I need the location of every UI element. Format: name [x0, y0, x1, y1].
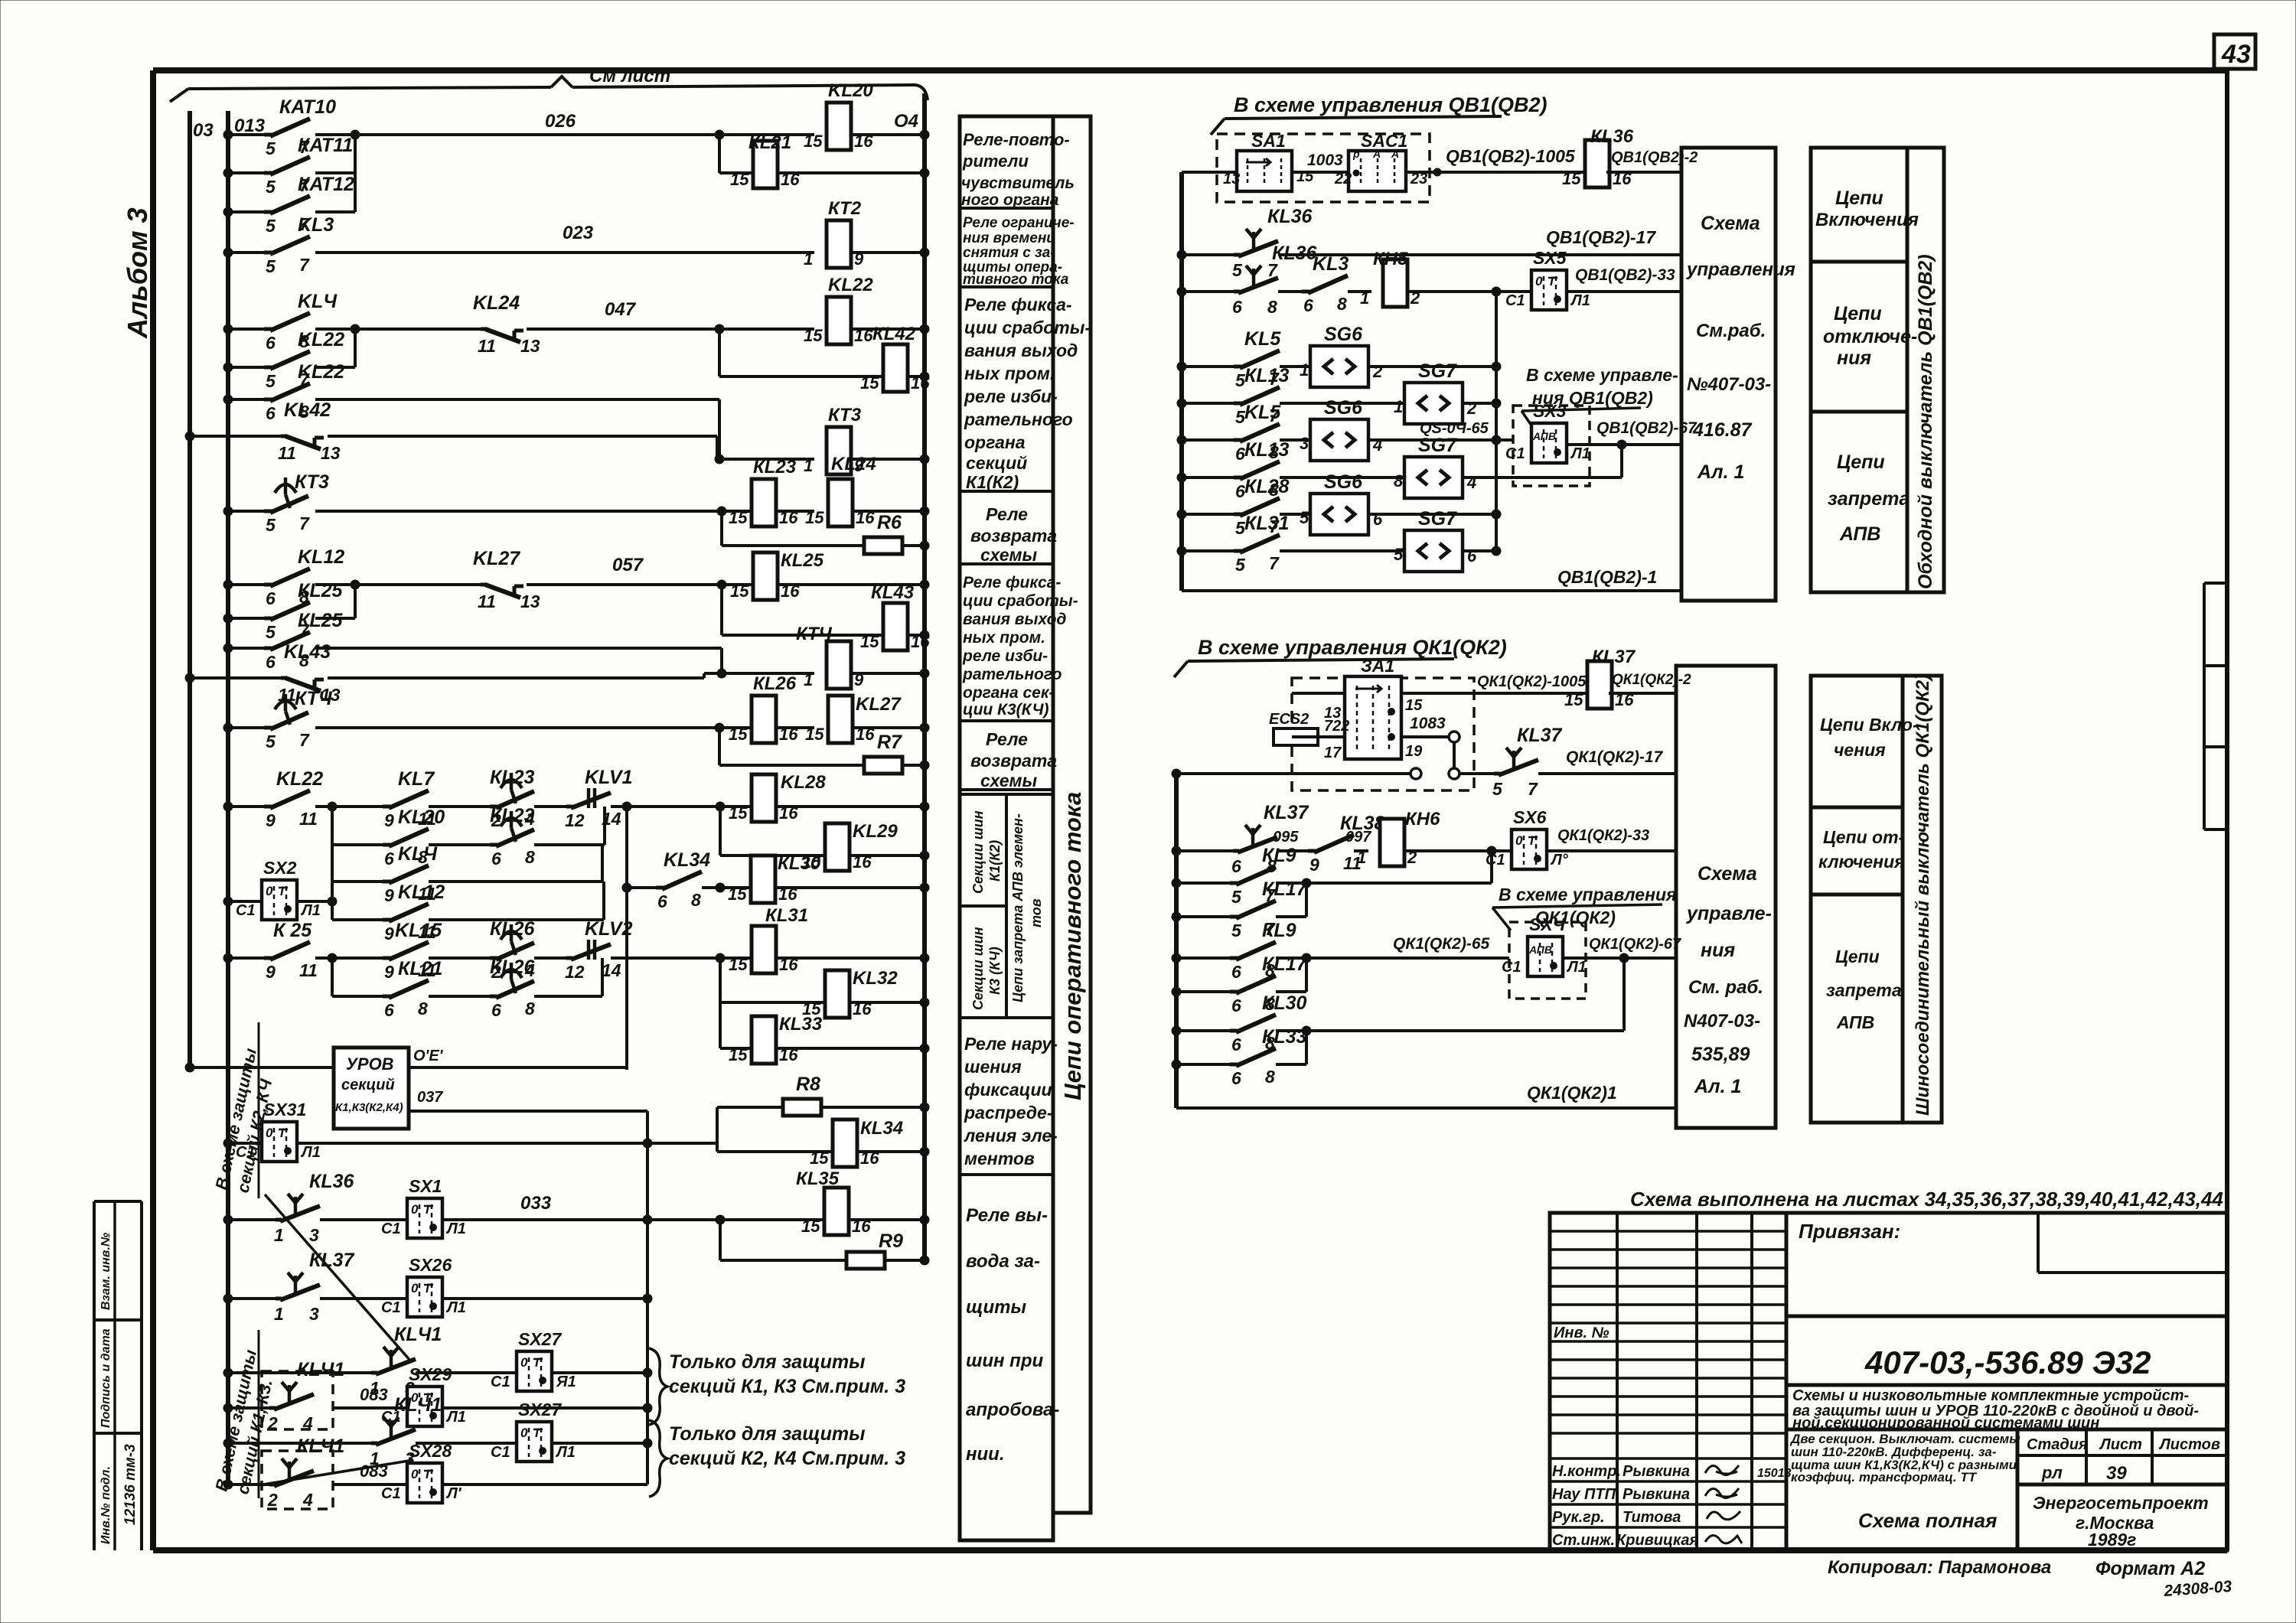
resistor R8 — [783, 1099, 821, 1116]
test block SX6 — [1512, 829, 1547, 869]
frame spare column right edge — [2204, 583, 2227, 829]
svg-text:SAC1: SAC1 — [1361, 131, 1407, 151]
svg-text:3: 3 — [309, 1304, 319, 1324]
svg-text:Ст.инж.: Ст.инж. — [1552, 1532, 1615, 1549]
svg-text:Рывкина: Рывкина — [1623, 1463, 1690, 1480]
junction — [715, 130, 724, 139]
relay coil KT3 — [827, 427, 851, 474]
svg-text:В схеме управления: В схеме управления — [1499, 885, 1677, 904]
svg-text:Реле нару-: Реле нару- — [964, 1034, 1058, 1054]
wire rung 047 — [228, 328, 264, 331]
svg-text:15: 15 — [730, 582, 749, 601]
svg-text:0: 0 — [266, 884, 273, 898]
branch KL12 — [331, 882, 334, 920]
svg-text:Л1: Л1 — [1570, 292, 1590, 309]
wire rung 057 — [228, 583, 264, 586]
relay coil KL35 — [824, 1188, 849, 1235]
svg-text:16: 16 — [911, 632, 930, 651]
svg-text:083: 083 — [360, 1385, 388, 1404]
svg-text:КL25: КL25 — [781, 550, 824, 571]
svg-text:ЗА1: ЗА1 — [1361, 656, 1394, 676]
svg-text:15: 15 — [729, 955, 748, 974]
svg-text:6: 6 — [1231, 1068, 1241, 1088]
svg-text:Ал. 1: Ал. 1 — [1697, 461, 1744, 483]
svg-text:УРОВ: УРОВ — [346, 1054, 394, 1074]
svg-text:КL23: КL23 — [753, 457, 797, 477]
svg-text:15: 15 — [805, 508, 824, 527]
svg-text:ния: ния — [1701, 940, 1735, 961]
svg-text:15: 15 — [728, 885, 747, 904]
svg-text:5: 5 — [1394, 545, 1404, 564]
svg-text:KL22: KL22 — [276, 768, 323, 790]
test block SX29 — [407, 1387, 442, 1426]
svg-text:р: р — [1352, 148, 1360, 160]
svg-text:R9: R9 — [879, 1230, 903, 1252]
svg-text:6: 6 — [1232, 297, 1242, 317]
svg-text:секций: секций — [341, 1077, 395, 1093]
svg-text:КL31: КL31 — [765, 905, 808, 926]
svg-text:SG7: SG7 — [1418, 435, 1457, 456]
cell text relay repeaters — [961, 130, 1075, 209]
wire R8 line — [717, 1106, 783, 1109]
svg-text:0: 0 — [411, 1202, 419, 1217]
svg-text:КL17: КL17 — [1262, 953, 1308, 975]
svg-text:5: 5 — [1231, 887, 1242, 907]
svg-text:1: 1 — [804, 456, 813, 475]
svg-text:6: 6 — [266, 588, 276, 608]
svg-text:KL22: KL22 — [298, 329, 344, 350]
switch SA1 — [1223, 131, 1314, 191]
svg-text:7: 7 — [299, 730, 310, 750]
svg-text:ции сработы-: ции сработы- — [963, 592, 1078, 610]
svg-text:19: 19 — [1405, 743, 1423, 760]
relay coil KL28 — [752, 774, 776, 822]
cell text return relay 2 — [970, 729, 1057, 790]
svg-text:Л°: Л° — [1550, 852, 1569, 869]
wire UROV out 037 — [409, 1110, 647, 1113]
svg-text:16: 16 — [853, 852, 872, 872]
svg-text:Цепи: Цепи — [1835, 187, 1883, 209]
wire rung KL41 — [228, 1371, 371, 1374]
svg-text:КLЧ1: КLЧ1 — [394, 1394, 442, 1416]
svg-text:КТ2: КТ2 — [828, 198, 862, 219]
svg-text:КL25: КL25 — [298, 610, 344, 631]
svg-text:ции сработы-: ции сработы- — [964, 318, 1091, 337]
svg-text:щиты: щиты — [966, 1297, 1026, 1318]
svg-text:реле изби-: реле изби- — [964, 386, 1058, 406]
svg-text:6: 6 — [491, 1000, 501, 1020]
svg-text:Цепи: Цепи — [1837, 451, 1885, 473]
svg-text:Титова: Титова — [1623, 1509, 1681, 1526]
svg-text:Только для защиты: Только для защиты — [669, 1351, 865, 1373]
wire to R6 — [720, 511, 723, 546]
svg-text:Альбом 3: Альбом 3 — [122, 207, 153, 339]
svg-text:12: 12 — [565, 810, 585, 830]
wire rung KL25-2 — [228, 647, 264, 650]
svg-text:KL29: KL29 — [853, 821, 898, 842]
svg-text:5: 5 — [266, 371, 276, 391]
svg-text:16: 16 — [854, 132, 873, 151]
link wire up to -67 — [1620, 445, 1623, 477]
svg-text:Л1: Л1 — [445, 1299, 466, 1316]
svg-text:16: 16 — [853, 999, 872, 1018]
wire KT4 coil line — [722, 672, 814, 675]
cell text bus protection output relay — [966, 1205, 1059, 1465]
rotated label bus-tie breaker QK1 — [1903, 674, 1942, 1123]
cell text time limit relay — [963, 215, 1075, 288]
svg-text:Реле фикса-: Реле фикса- — [964, 295, 1072, 314]
fuse ECS2 — [1269, 711, 1349, 745]
svg-text:0: 0 — [411, 1467, 419, 1481]
svg-text:1: 1 — [804, 249, 813, 269]
svg-text:SХ3: SХ3 — [1533, 401, 1567, 421]
wire KL34 coil line — [717, 1150, 833, 1153]
leader line — [263, 1460, 413, 1484]
step wire — [716, 1107, 719, 1152]
collector wire — [646, 1111, 649, 1484]
svg-text:KL5: KL5 — [1244, 402, 1281, 423]
svg-text:SG7: SG7 — [1418, 508, 1457, 530]
rotated label bypass breaker QB1 — [1907, 148, 1944, 592]
svg-text:шения: шения — [964, 1057, 1022, 1077]
brace for note K2 K4 — [649, 1420, 667, 1497]
svg-text:9: 9 — [266, 962, 276, 982]
svg-text:KL15: KL15 — [395, 920, 442, 941]
svg-text:2: 2 — [1466, 399, 1477, 418]
svg-text:отключе-: отключе- — [1823, 326, 1917, 347]
svg-text:QВ1(QВ2)-2: QВ1(QВ2)-2 — [1611, 149, 1698, 166]
protection scheme note K1 K3 — [211, 1330, 276, 1498]
wire rung QK1-1 — [1176, 1106, 1676, 1110]
link wire — [703, 673, 706, 678]
svg-text:SX27: SX27 — [518, 1400, 562, 1419]
wire rung KAT11 — [228, 171, 264, 174]
svg-text:В схеме управления QВ1(QВ2): В схеме управления QВ1(QВ2) — [1234, 93, 1548, 116]
svg-text:3: 3 — [1300, 434, 1309, 453]
svg-text:Реле фикса-: Реле фикса- — [963, 574, 1061, 592]
svg-text:SG6: SG6 — [1324, 324, 1363, 345]
svg-text:15: 15 — [729, 725, 748, 744]
svg-text:рательного: рательного — [964, 409, 1073, 429]
svg-text:вания выход: вания выход — [963, 611, 1066, 628]
wire to KL42 coil — [718, 329, 721, 376]
wire to R7 — [718, 728, 721, 765]
svg-text:11: 11 — [278, 443, 296, 463]
svg-text:Цепи запрета АПВ элемен-: Цепи запрета АПВ элемен- — [1010, 813, 1026, 1002]
svg-text:КАТ10: КАТ10 — [279, 96, 336, 118]
wire to KL21 branch — [718, 135, 721, 173]
svg-text:QВ1(QВ2)-17: QВ1(QВ2)-17 — [1546, 227, 1656, 247]
svg-text:13: 13 — [520, 592, 540, 611]
svg-text:1: 1 — [804, 670, 813, 689]
svg-text:1003: 1003 — [1307, 152, 1343, 169]
svg-text:КL37: КL37 — [1517, 725, 1563, 746]
relay coil KL37 — [1587, 661, 1612, 709]
svg-text:SX28: SX28 — [409, 1441, 452, 1461]
signature scribbles — [1705, 1465, 1792, 1543]
svg-text:SX26: SX26 — [409, 1255, 452, 1275]
svg-text:См лист: См лист — [589, 66, 670, 86]
svg-text:Формат А2: Формат А2 — [2095, 1558, 2205, 1579]
svg-text:16: 16 — [781, 582, 800, 601]
svg-text:Реле: Реле — [986, 504, 1028, 524]
test block SX27 — [517, 1351, 552, 1391]
svg-text:Включения: Включения — [1815, 210, 1919, 230]
right return bus — [922, 93, 927, 1263]
svg-text:органа сек-: органа сек- — [963, 684, 1054, 702]
svg-text:рители: рители — [962, 152, 1029, 171]
svg-text:8: 8 — [1267, 297, 1277, 317]
test block SX4 — [1528, 937, 1563, 976]
svg-text:Шиносоединительный выключател: Шиносоединительный выключатель QК1(QК2) — [1913, 674, 1933, 1116]
svg-text:5: 5 — [266, 177, 276, 197]
svg-text:16: 16 — [860, 1149, 879, 1168]
svg-text:Л1: Л1 — [1570, 445, 1590, 462]
svg-text:запрета: запрета — [1826, 980, 1902, 1000]
svg-text:Схема: Схема — [1701, 213, 1760, 234]
note in control scheme QB1 — [1521, 365, 1678, 433]
svg-text:Цепи от-: Цепи от- — [1823, 827, 1904, 847]
control scheme box B1 — [1676, 666, 1776, 1128]
svg-text:9: 9 — [854, 249, 864, 269]
junction — [717, 507, 726, 516]
svg-text:6: 6 — [1231, 1035, 1241, 1054]
svg-text:6: 6 — [1373, 510, 1383, 529]
svg-text:ного органа: ного органа — [961, 191, 1059, 209]
svg-text:КL21: КL21 — [748, 132, 791, 153]
svg-text:15: 15 — [1564, 690, 1583, 709]
relay coil KL23 — [752, 479, 776, 526]
svg-text:КL9: КL9 — [1262, 845, 1296, 866]
svg-text:12: 12 — [565, 962, 585, 982]
svg-text:KL12: KL12 — [398, 882, 445, 903]
svg-text:5: 5 — [266, 139, 276, 158]
relay coil KL25 — [753, 552, 778, 600]
relay coil KH6 — [1380, 819, 1404, 866]
svg-text:KL42: KL42 — [284, 399, 331, 421]
svg-text:6: 6 — [266, 333, 276, 353]
svg-text:КL36: КL36 — [1267, 206, 1313, 227]
svg-text:КL9: КL9 — [1262, 920, 1296, 941]
circuit purpose box B2 — [1811, 676, 1919, 1123]
svg-text:Реле вы-: Реле вы- — [966, 1205, 1048, 1226]
svg-text:1: 1 — [274, 1225, 284, 1245]
svg-text:1: 1 — [274, 1304, 284, 1324]
test block SX27 second — [517, 1422, 552, 1462]
svg-text:7: 7 — [1269, 553, 1280, 573]
svg-text:8: 8 — [691, 890, 701, 910]
svg-text:047: 047 — [605, 299, 637, 320]
relay coil KL21 — [753, 141, 778, 188]
svg-text:органа: органа — [964, 432, 1026, 452]
svg-text:шин при: шин при — [966, 1351, 1043, 1371]
spark gap SG7 third — [1404, 530, 1463, 572]
svg-text:1083: 1083 — [1410, 715, 1446, 732]
group feed wire — [332, 805, 383, 808]
svg-text:С1: С1 — [491, 1444, 510, 1461]
resistor R6 — [864, 537, 902, 554]
svg-text:KL43: KL43 — [284, 641, 331, 663]
control scheme box A1 — [1681, 148, 1795, 601]
svg-text:Л1: Л1 — [1566, 959, 1587, 976]
step wire — [720, 648, 723, 673]
svg-text:КL21: КL21 — [398, 958, 442, 979]
wire KL34 contact branch — [625, 807, 628, 1070]
svg-text:16: 16 — [856, 508, 875, 527]
relay coil KL34 — [833, 1119, 857, 1167]
svg-text:Энергосетьпроект: Энергосетьпроект — [2033, 1493, 2209, 1513]
svg-text:7: 7 — [1528, 779, 1538, 799]
svg-text:Схема выполнена на лист: Схема выполнена на листах 34,35,36,37,38… — [1630, 1188, 2223, 1211]
svg-text:Н.контр.: Н.контр. — [1552, 1463, 1621, 1480]
wire rung SG7-2 — [1182, 476, 1234, 479]
svg-text:9: 9 — [1309, 855, 1319, 875]
svg-text:023: 023 — [563, 223, 594, 243]
svg-text:15: 15 — [1405, 697, 1423, 714]
svg-text:KL34: KL34 — [664, 849, 710, 871]
svg-text:SX29: SX29 — [409, 1364, 452, 1384]
svg-text:QК1(QК2)-67: QК1(QК2)-67 — [1589, 936, 1681, 953]
svg-text:С1: С1 — [1486, 852, 1505, 869]
svg-text:КL17: КL17 — [1262, 878, 1308, 900]
svg-text:Л1: Л1 — [445, 1221, 466, 1237]
title block frame — [1550, 1213, 2227, 1550]
wire rung QK1-17 — [1176, 772, 1411, 775]
svg-text:С1: С1 — [236, 902, 256, 919]
test block SX26 — [407, 1277, 442, 1317]
svg-text:Инв.№ подл.: Инв.№ подл. — [99, 1466, 113, 1544]
svg-text:097: 097 — [1345, 829, 1371, 846]
svg-text:ния времени: ния времени — [963, 230, 1055, 246]
svg-text:рательного: рательного — [962, 666, 1062, 683]
test block SX5 — [1531, 270, 1567, 310]
svg-text:15: 15 — [860, 373, 879, 393]
svg-text:1: 1 — [1300, 360, 1309, 380]
svg-text:15: 15 — [804, 132, 823, 151]
step wire down — [718, 399, 721, 459]
svg-text:Реле ограниче-: Реле ограниче- — [963, 215, 1075, 231]
svg-text:16: 16 — [779, 725, 798, 744]
svg-text:Схема полная: Схема полная — [1858, 1509, 1997, 1532]
svg-text:6: 6 — [1231, 856, 1241, 876]
svg-text:Кривицкая: Кривицкая — [1616, 1532, 1698, 1549]
wire rung KL22 group — [228, 805, 264, 808]
spark gap SG6 — [1310, 346, 1368, 387]
wire rung SG7-1 — [1182, 402, 1234, 405]
svg-text:К1(К2): К1(К2) — [966, 472, 1019, 492]
svg-text:С1: С1 — [381, 1299, 401, 1316]
svg-text:QК1(QК2)-2: QК1(QК2)-2 — [1612, 672, 1691, 688]
svg-text:8: 8 — [1265, 1067, 1275, 1087]
wire rung 013-026 — [228, 133, 264, 136]
svg-text:15: 15 — [801, 1217, 820, 1236]
svg-text:6: 6 — [266, 403, 276, 423]
svg-text:КLЧ1: КLЧ1 — [394, 1324, 442, 1345]
wire rung KL37 — [228, 1297, 276, 1300]
svg-text:Рук.гр.: Рук.гр. — [1552, 1509, 1605, 1526]
svg-text:КТ3: КТ3 — [828, 405, 862, 425]
svg-text:КL28: КL28 — [1244, 476, 1290, 497]
wire rung QB1-17 — [1182, 253, 1234, 256]
svg-text:16: 16 — [854, 326, 873, 345]
svg-text:0: 0 — [520, 1355, 528, 1370]
relay coil KT4 — [827, 641, 851, 689]
description column frame — [960, 116, 1091, 1540]
svg-text:KL20: KL20 — [398, 807, 445, 828]
bus 03 left feeder — [188, 111, 192, 1070]
svg-text:Секции шин: Секции шин — [970, 927, 986, 1010]
svg-text:Листов: Листов — [2158, 1436, 2220, 1453]
rotated cell text sections K1 K2 — [970, 810, 1003, 894]
wire R9 line — [719, 1220, 722, 1260]
svg-text:QК1(QК2)-65: QК1(QК2)-65 — [1393, 935, 1490, 953]
svg-text:SG6: SG6 — [1324, 471, 1363, 493]
svg-text:АПВ: АПВ — [1836, 1012, 1874, 1032]
svg-text:КТЧ: КТЧ — [295, 688, 333, 709]
resistor R7 — [864, 757, 902, 774]
svg-text:О4: О4 — [894, 111, 918, 132]
svg-text:С1: С1 — [381, 1485, 401, 1502]
wire rung KL42 — [190, 435, 281, 438]
svg-text:КL31: КL31 — [1244, 513, 1289, 534]
svg-text:возврата: возврата — [970, 526, 1057, 546]
sheet description text — [1789, 1432, 2020, 1484]
wire rung KAT12 — [228, 210, 264, 213]
svg-text:1: 1 — [1360, 288, 1369, 308]
svg-text:16: 16 — [779, 1045, 798, 1064]
svg-text:Схема: Схема — [1698, 863, 1757, 885]
svg-text:15: 15 — [730, 170, 749, 189]
svg-text:KL27: KL27 — [473, 548, 520, 569]
svg-text:QК1(QК2)1: QК1(QК2)1 — [1527, 1083, 1617, 1103]
svg-text:R6: R6 — [877, 512, 902, 533]
rotated cell text sections K3 K4 — [970, 927, 1003, 1010]
svg-text:3: 3 — [309, 1225, 319, 1245]
svg-text:16: 16 — [856, 725, 875, 744]
link wire vertical B — [1490, 851, 1493, 883]
svg-text:секций К2, К4 См.прим. 3: секций К2, К4 См.прим. 3 — [669, 1448, 905, 1469]
svg-text:К1,К3(К2,К4): К1,К3(К2,К4) — [335, 1101, 403, 1114]
svg-text:ния: ния — [1837, 347, 1871, 369]
dashed box KL41 second — [262, 1451, 333, 1509]
svg-text:КL13: КL13 — [1244, 365, 1290, 386]
wire rung SG7-3 — [1182, 549, 1234, 552]
wire rung QK1-65 — [1176, 957, 1230, 960]
svg-text:KL3: KL3 — [298, 214, 334, 236]
svg-text:6: 6 — [657, 891, 667, 911]
stage sheet headers — [2027, 1436, 2220, 1484]
see-sheet boundary line — [170, 77, 928, 102]
wire UROV out OE — [409, 1066, 627, 1069]
svg-text:тов: тов — [1029, 898, 1044, 927]
svg-text:535,89: 535,89 — [1691, 1044, 1750, 1065]
svg-text:4: 4 — [302, 1490, 313, 1510]
svg-text:QК1(QК2)-17: QК1(QК2)-17 — [1566, 748, 1664, 766]
svg-text:16: 16 — [779, 508, 798, 527]
svg-text:Стадия: Стадия — [2027, 1436, 2088, 1453]
svg-text:QВ1(QВ2)-1005: QВ1(QВ2)-1005 — [1446, 146, 1576, 166]
wire rung QB1-65 — [1182, 438, 1234, 442]
svg-text:Инв. №: Инв. № — [1554, 1325, 1609, 1341]
wire rung KL9 — [1176, 882, 1230, 885]
svg-text:722: 722 — [1324, 718, 1349, 735]
svg-text:Копировал: Парамонова: Копировал: Парамонова — [1828, 1557, 2051, 1578]
circuit purpose box A2 — [1811, 148, 1919, 592]
svg-text:KLV2: KLV2 — [585, 918, 633, 940]
branch KL17 — [1305, 883, 1308, 917]
relay coil KL26 — [752, 696, 776, 743]
svg-text:9: 9 — [384, 885, 394, 905]
